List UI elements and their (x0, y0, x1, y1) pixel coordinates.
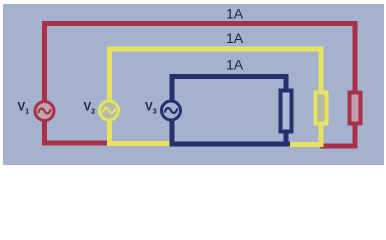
background panel (3, 4, 384, 165)
resistor R3 (blue, inner) (281, 91, 292, 132)
wire: red mesh bottom-left horizontal (42, 141, 110, 146)
wire: yellow mesh right vertical (top to resistor) (319, 47, 324, 93)
resistor R2 (yellow, middle-right) (316, 93, 327, 124)
wire: red mesh left vertical (top part to source V1) (42, 21, 47, 101)
wire: blue mesh left vertical (source V3 to bottom) (170, 121, 175, 147)
wire: red resistor bottom lead (353, 123, 358, 149)
wire: blue mesh top horizontal (170, 74, 289, 79)
wire: red mesh bottom-right horizontal (320, 144, 358, 149)
wire: yellow mesh left vertical (source V2 to bottom) (107, 121, 112, 146)
wire: blue mesh left vertical (top part to source V3) (170, 74, 175, 101)
wire: yellow mesh left vertical (top part to source V2) (107, 47, 112, 102)
AC source V1 (red) (35, 102, 54, 121)
wire: red mesh right vertical (top to resistor) (353, 21, 358, 92)
wire: yellow mesh top horizontal (107, 47, 324, 52)
AC source V3 (blue) (162, 101, 181, 120)
wire: blue resistor bottom lead (284, 131, 289, 147)
svg-text:1A: 1A (226, 30, 244, 46)
wire: red mesh left vertical (source V1 to bottom) (42, 121, 47, 146)
svg-text:1A: 1A (226, 6, 244, 22)
wire: red mesh top horizontal (42, 21, 358, 26)
svg-text:1A: 1A (226, 57, 244, 73)
wire: blue mesh bottom horizontal (170, 142, 291, 147)
resistor R1 (red, right) (350, 93, 361, 124)
wire: blue mesh right vertical (top to resistor) (284, 74, 289, 90)
wire: yellow mesh bottom-left horizontal (107, 141, 172, 146)
AC source V2 (yellow) (100, 101, 119, 120)
wire: yellow mesh bottom-right horizontal (288, 142, 322, 147)
wire: yellow resistor bottom lead (319, 123, 324, 147)
